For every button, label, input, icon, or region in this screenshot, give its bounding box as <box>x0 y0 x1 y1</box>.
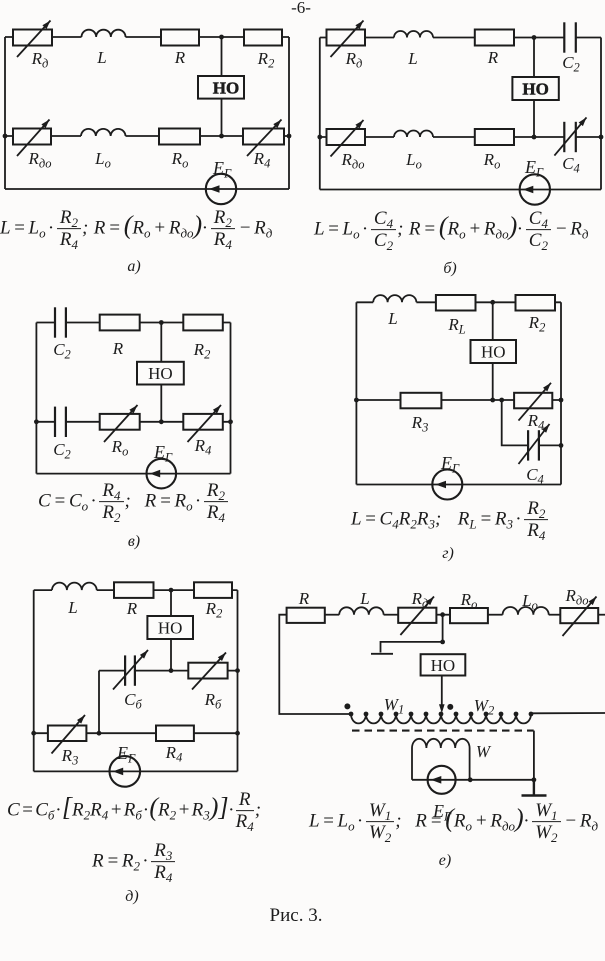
circuit b: wire bottom <box>320 189 601 191</box>
formula circuit b <box>314 209 589 251</box>
inductor L <box>373 295 416 302</box>
circuit a: wire top rail <box>5 36 289 38</box>
circuit d: wire right side <box>237 590 239 771</box>
circuit b: wire right side <box>600 38 602 190</box>
polarity dot W1 <box>344 703 350 709</box>
circuit a: wire mid rail <box>5 135 289 137</box>
source EG circuit a <box>206 174 236 204</box>
inductor Lo <box>394 131 433 138</box>
svg-text:Lo: Lo <box>94 149 111 171</box>
node top junction <box>490 300 495 305</box>
svg-text:L: L <box>96 48 106 67</box>
source EG circuit e <box>428 766 456 794</box>
capacitor Cb (variable) <box>124 655 126 685</box>
svg-text:RL: RL <box>447 315 465 337</box>
formula circuit g <box>351 499 549 541</box>
svg-text:L: L <box>67 598 77 617</box>
resistor Rd (variable) <box>13 30 52 46</box>
svg-text:R: R <box>487 48 499 67</box>
circuit d: wire bottom <box>34 770 238 772</box>
svg-text:НО: НО <box>158 618 183 637</box>
svg-text:НО: НО <box>522 79 548 98</box>
resistor R4 (variable) <box>243 129 284 145</box>
capacitor C4 (variable) <box>563 122 565 152</box>
wire to null indicator <box>492 302 494 340</box>
svg-text:б): б) <box>443 260 456 277</box>
svg-text:в): в) <box>128 533 140 550</box>
wire chain 6 <box>598 614 605 616</box>
wire to null indicator <box>160 323 162 362</box>
circuit b: wire top rail <box>320 37 601 39</box>
wire secondary left <box>411 748 413 780</box>
ground <box>522 780 547 796</box>
wire chain 4 <box>488 614 503 616</box>
circuit v: wire bottom <box>36 473 230 475</box>
wire branch down left <box>98 671 100 734</box>
svg-text:НО: НО <box>213 78 239 97</box>
svg-text:C2: C2 <box>53 440 71 462</box>
resistor Rdo (variable) <box>327 129 366 145</box>
resistor R <box>161 30 199 46</box>
inductor Lo <box>503 607 549 615</box>
svg-text:EГ: EГ <box>212 158 232 181</box>
resistor R <box>287 608 325 623</box>
wire to null indicator <box>221 37 223 76</box>
resistor R4 (variable) <box>514 393 552 409</box>
resistor Ro <box>450 608 488 623</box>
wire HO to middle row <box>170 639 172 671</box>
source EG circuit g <box>432 470 462 500</box>
capacitor C2 top <box>54 307 56 337</box>
svg-text:C4: C4 <box>526 465 544 487</box>
node mid right <box>559 398 564 403</box>
svg-text:г): г) <box>442 545 454 562</box>
circuit a: wire left side <box>4 37 6 189</box>
wire dashed end down <box>533 731 535 780</box>
circuit e: wire left side <box>279 615 351 714</box>
svg-text:Rд: Rд <box>345 49 363 71</box>
wire chain 5 <box>549 614 561 616</box>
circuit v: wire top rail <box>36 322 230 324</box>
wire HO to mid rail <box>160 385 162 422</box>
winding W (secondary) <box>412 739 470 748</box>
wire HO to mid rail <box>221 99 223 136</box>
node ground junction <box>532 777 537 782</box>
null indicator HO <box>147 616 193 639</box>
inductor L <box>394 31 433 38</box>
inductor L <box>52 583 97 590</box>
wire to null indicator <box>533 38 535 78</box>
svg-text:R: R <box>298 589 310 608</box>
resistor R <box>114 582 154 598</box>
wire HO to mid rail <box>492 363 494 400</box>
node middle right <box>235 668 240 673</box>
circuit d: wire left side <box>33 590 35 771</box>
svg-text:EГ: EГ <box>524 157 544 180</box>
capacitor C2 bottom <box>54 407 56 437</box>
node top junction <box>219 35 224 40</box>
svg-text:R4: R4 <box>527 411 545 433</box>
node top junction <box>159 320 164 325</box>
resistor R <box>475 30 514 46</box>
resistor R3 <box>401 393 442 409</box>
wire branch down <box>502 400 561 445</box>
resistor Rdo (variable) <box>13 129 51 145</box>
svg-text:R4: R4 <box>253 149 271 171</box>
svg-text:EГ: EГ <box>116 743 136 766</box>
source EG circuit d <box>110 756 141 787</box>
svg-text:L: L <box>407 49 417 68</box>
resistor Ro (variable) <box>100 414 140 430</box>
capacitor C2 <box>563 22 565 52</box>
svg-text:Рис. 3.: Рис. 3. <box>270 905 323 926</box>
node chain junction <box>440 612 445 617</box>
svg-text:R: R <box>174 48 186 67</box>
resistor Ro <box>159 129 200 145</box>
svg-text:а): а) <box>127 258 140 275</box>
node middle junction <box>169 668 174 673</box>
svg-text:Ro: Ro <box>171 149 189 171</box>
svg-text:Ro: Ro <box>460 590 478 612</box>
node lower left <box>31 731 36 736</box>
null indicator HO <box>137 362 184 385</box>
formula circuit a <box>0 208 272 250</box>
winding W1 W2 (primary) <box>351 714 531 723</box>
svg-text:НО: НО <box>148 364 173 383</box>
svg-text:R: R <box>126 599 138 618</box>
circuit g: wire left side <box>355 302 357 484</box>
null indicator HO <box>421 654 466 675</box>
svg-text:C4: C4 <box>562 154 580 176</box>
node top junction <box>169 588 174 593</box>
svg-text:EГ: EГ <box>440 453 460 476</box>
formula circuit d line 1 <box>7 790 261 832</box>
svg-text:д): д) <box>125 888 138 905</box>
svg-text:W: W <box>476 742 492 761</box>
resistor Rdo (variable) <box>560 608 598 623</box>
svg-text:Rдо: Rдо <box>565 586 589 608</box>
wire chain 3 <box>436 614 450 616</box>
wire to null indicator <box>170 590 172 616</box>
source EG circuit v <box>147 459 177 489</box>
node lower right <box>235 731 240 736</box>
svg-text:Rд: Rд <box>31 49 49 71</box>
null indicator HO <box>198 76 244 99</box>
wire secondary bottom <box>412 779 534 781</box>
wire HO to mid rail <box>533 100 535 137</box>
formula circuit v <box>38 481 229 523</box>
resistor Rd (variable) <box>327 30 366 46</box>
circuit v: wire right side <box>230 323 232 474</box>
resistor R3 (variable) <box>48 726 87 742</box>
svg-text:-6-: -6- <box>291 0 311 17</box>
circuit v: wire mid rail <box>36 421 230 423</box>
svg-text:L: L <box>387 309 397 328</box>
svg-text:R3: R3 <box>61 746 79 768</box>
svg-text:L: L <box>359 589 369 608</box>
node mid left <box>3 134 8 139</box>
wire secondary right <box>469 748 471 780</box>
resistor R2 <box>183 315 223 331</box>
svg-text:R2: R2 <box>528 313 546 335</box>
source EG circuit b <box>520 174 550 204</box>
formula circuit d line 2 <box>92 841 176 883</box>
switch contact <box>371 642 443 654</box>
capacitor C4 (variable) <box>527 430 529 460</box>
svg-text:Rд: Rд <box>411 589 429 611</box>
circuit b: wire mid rail <box>320 136 601 138</box>
svg-text:W2: W2 <box>474 696 494 718</box>
inductor L <box>339 607 383 614</box>
svg-text:R3: R3 <box>411 413 429 435</box>
svg-text:R4: R4 <box>165 743 183 765</box>
svg-text:EГ: EГ <box>153 442 173 465</box>
node mid left <box>317 135 322 140</box>
resistor R <box>100 315 140 331</box>
wire chain 1 <box>325 614 339 616</box>
resistor Ro <box>475 129 514 145</box>
wire middle row <box>99 670 238 672</box>
node branch right <box>559 443 564 448</box>
circuit a: wire bottom <box>5 188 289 190</box>
svg-text:Lo: Lo <box>405 150 422 172</box>
svg-text:Cб: Cб <box>124 690 142 712</box>
formula circuit e <box>309 801 598 843</box>
svg-text:C2: C2 <box>562 53 580 75</box>
resistor R4 <box>156 726 194 742</box>
svg-text:Lo: Lo <box>521 591 538 613</box>
svg-text:НО: НО <box>481 342 506 361</box>
resistor RL <box>436 295 476 311</box>
resistor R2 <box>516 295 556 311</box>
node mid right <box>599 135 604 140</box>
node mid left <box>354 398 359 403</box>
svg-text:W1: W1 <box>384 695 404 717</box>
circuit b: wire left side <box>319 38 321 190</box>
node mid center <box>219 134 224 139</box>
circuit g: wire top rail <box>356 301 561 303</box>
circuit g: wire mid rail <box>356 399 561 401</box>
null indicator HO <box>512 77 558 100</box>
resistor R2 <box>194 582 232 598</box>
svg-text:R: R <box>112 339 124 358</box>
svg-text:Ro: Ro <box>111 437 129 459</box>
svg-text:НО: НО <box>431 656 456 675</box>
node mid junction 1 <box>490 398 495 403</box>
node mid center <box>159 419 164 424</box>
resistor Rb (variable) <box>188 663 227 679</box>
circuit g: wire bottom <box>356 484 561 486</box>
svg-text:Rдо: Rдо <box>28 149 52 171</box>
svg-text:R2: R2 <box>257 49 275 71</box>
wire chain 2 <box>384 614 399 616</box>
circuit g: wire right side <box>560 302 562 484</box>
node lower junction <box>97 731 102 736</box>
node mid center <box>532 135 537 140</box>
polarity dot W2 <box>447 704 453 710</box>
core dashed line <box>352 730 534 732</box>
svg-text:R2: R2 <box>205 599 223 621</box>
circuit d: wire lower rail <box>34 732 238 734</box>
svg-text:е): е) <box>439 852 451 869</box>
wire node down <box>442 615 444 642</box>
resistor R2 <box>244 30 282 46</box>
svg-text:Rб: Rб <box>204 690 222 712</box>
circuit v: wire left side <box>35 323 37 474</box>
inductor L <box>82 30 126 37</box>
node secondary junction <box>468 777 473 782</box>
svg-text:Ro: Ro <box>483 150 501 172</box>
svg-text:C2: C2 <box>53 340 71 362</box>
wire winding to right edge <box>531 712 605 714</box>
node tap junction <box>440 640 445 645</box>
node mid junction 2 <box>499 398 504 403</box>
node mid right <box>228 419 233 424</box>
node top junction <box>532 35 537 40</box>
svg-text:Rдо: Rдо <box>341 150 365 172</box>
resistor R4 (variable) <box>183 414 223 430</box>
node mid left <box>34 419 39 424</box>
svg-text:R2: R2 <box>193 340 211 362</box>
node mid right <box>287 134 292 139</box>
null indicator HO <box>471 340 517 363</box>
inductor Lo <box>81 129 125 136</box>
circuit d: wire top rail <box>34 589 238 591</box>
wire HO to winding tap (arrow) <box>441 676 443 710</box>
circuit a: wire right side <box>288 37 290 189</box>
svg-text:R4: R4 <box>194 436 212 458</box>
resistor Rd (variable) <box>398 608 436 623</box>
